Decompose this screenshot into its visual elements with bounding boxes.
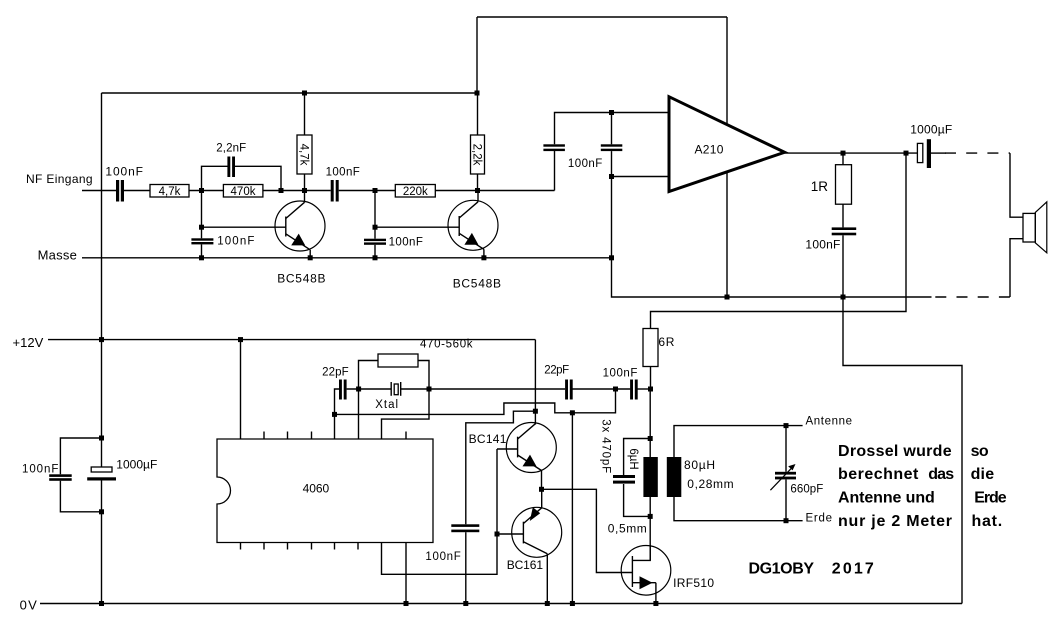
svg-text:22pF: 22pF (544, 365, 569, 377)
svg-text:hat.: hat. (972, 513, 1003, 530)
capacitor 100nF osc (630, 380, 633, 400)
wire: +12V rail y=339.6 (48, 339, 535, 341)
resistor 470k feedback (223, 185, 263, 198)
wire: osc line xtal right to 22pF2 (401, 388, 565, 390)
svg-text:100nF: 100nF (389, 236, 423, 248)
wire: 22pF2 to node 615.5 (572, 388, 630, 390)
svg-text:2,2k: 2,2k (471, 144, 483, 166)
node: xtal right (427, 387, 432, 392)
svg-text:BC548B: BC548B (453, 276, 501, 290)
node: psu bracket top (99, 436, 104, 441)
svg-text:Masse: Masse (38, 248, 77, 263)
node: 0V at 4060 pin drop (404, 601, 409, 606)
svg-text:660pF: 660pF (790, 484, 823, 496)
capacitor 22pF right (565, 380, 568, 400)
wire: top feedback loop horizontal y=17 (477, 16, 727, 18)
svg-text:1R: 1R (811, 179, 829, 194)
node: top rail at 2,2k (475, 91, 480, 96)
node: output at speaker branch (904, 151, 909, 156)
wire: main vertical x=650 from osc node to drain (649, 389, 651, 457)
node: filter top (648, 436, 653, 441)
wire: dashed to speaker (945, 152, 1010, 154)
wire: xtal right node down to 4060 pin x=381.5 (382, 389, 430, 439)
node: A210 + input (609, 110, 614, 115)
node: 0V at x=101.5 (99, 601, 104, 606)
node: Q2 collector / 2,2k (475, 188, 480, 193)
capacitor 100nF decoupling (451, 524, 479, 527)
svg-text:2,2nF: 2,2nF (216, 142, 246, 154)
svg-text:470-560k: 470-560k (420, 339, 473, 351)
op-amp A210 (669, 97, 785, 192)
node: emitter output junction (539, 487, 544, 492)
svg-text:BC161: BC161 (507, 558, 544, 572)
transistor Q1 BC548B (275, 201, 325, 251)
svg-text:6µH: 6µH (627, 448, 639, 469)
capacitor 22pF left (339, 380, 342, 400)
capacitor 100nF to A210 (left) (543, 144, 565, 146)
IC U1 4060 (217, 439, 433, 543)
svg-text:Xtal: Xtal (375, 399, 398, 411)
wire: base drive vertical x=497 (382, 449, 498, 574)
svg-text:Antenne: Antenne (806, 416, 853, 428)
resistor 4,7k series (150, 185, 189, 198)
wire: A210 - input (612, 176, 670, 178)
node: Q1 collector (302, 188, 307, 193)
svg-text:100nF: 100nF (805, 238, 840, 252)
svg-text:0V: 0V (20, 598, 38, 613)
svg-text:berechnet: berechnet (838, 466, 919, 483)
capacitor 1000uF output electrolytic (917, 143, 922, 162)
svg-text:die: die (971, 466, 995, 483)
node B (Q2 base node) (373, 188, 378, 193)
resistor 220k feedback (395, 185, 435, 198)
node: +12V at x=101.5 (99, 337, 104, 342)
wire: 0V rail y=603.5 (40, 603, 962, 605)
svg-text:100nF: 100nF (425, 551, 460, 563)
capacitor 660pF variable (785, 426, 787, 472)
transformer secondary 80uH (667, 457, 682, 497)
svg-text:4,7k: 4,7k (298, 144, 310, 166)
wire: 100nF psu bracket (60, 438, 101, 474)
wire: speaker bottom return (1010, 239, 1023, 297)
resistor 4,7k collector load (vertical) (304, 93, 306, 135)
svg-text:6R: 6R (658, 335, 674, 349)
capacitor 2,2nF loop wires (202, 166, 228, 190)
svg-text:100nF: 100nF (568, 158, 602, 170)
node: 6R bottom on osc line (648, 387, 653, 392)
transistor Q2 BC548B (448, 200, 498, 250)
wire: 4060 Vdd pin to +12V (240, 340, 242, 439)
node A (Q1 base node) (199, 188, 204, 193)
node: Q2 emitter at Masse (481, 255, 486, 260)
wire: secondary bottom to Erde (674, 497, 803, 521)
svg-text:0,5mm: 0,5mm (608, 522, 647, 536)
wire: feedback vertical x=727 down through A210 to node at y=297 (726, 17, 728, 297)
node: filter bottom (648, 514, 653, 519)
wire: 470k to interstage cap, nodes at 281 and 304.5 (263, 190, 331, 192)
node: output at 1R (841, 151, 846, 156)
svg-text:4,7k: 4,7k (159, 186, 181, 198)
svg-text:1000µF: 1000µF (910, 122, 952, 136)
svg-text:Erde: Erde (974, 490, 1007, 507)
transistor Q5 IRF510 (621, 546, 671, 596)
svg-text:Erde: Erde (806, 513, 833, 525)
svg-text:Drossel wurde: Drossel wurde (838, 443, 952, 460)
node: +12V at 4060 supply (238, 337, 243, 342)
resistor 1R (842, 153, 844, 165)
resistor 470-560k (359, 361, 379, 390)
capacitor 100nF Q1 base to Masse (191, 238, 213, 240)
wire: vertical x=611.5 down to return line (612, 177, 932, 298)
capacitor 100nF zobel (832, 227, 857, 230)
node: psu bracket bottom (99, 509, 104, 514)
wire: osc staircase to node 615.5 (335, 389, 616, 414)
svg-text:100nF: 100nF (105, 164, 143, 178)
transistor Q3 BC141 (506, 423, 556, 473)
wire: top feedback loop vertical left x=477 (476, 17, 478, 93)
resistor 6R (643, 329, 658, 367)
wire: top supply rail y=93 (102, 92, 478, 94)
svg-text:nur je 2 Meter: nur je 2 Meter (838, 513, 952, 530)
wire: 220k to Q2 collector node to A210 cap riser (435, 190, 554, 192)
node: BC161 base tap (495, 532, 500, 537)
capacitor 1000uF smoothing electrolytic (91, 467, 112, 472)
pin ticks bottom unconnected (240, 543, 242, 550)
capacitor 3x470pF bracket (624, 439, 651, 476)
svg-text:0,28mm: 0,28mm (687, 477, 733, 491)
node: Masse at 375 (373, 255, 378, 260)
wire: emitter output to IRF510 gate (542, 489, 633, 572)
node: A210 - input (609, 174, 614, 179)
svg-text:A210: A210 (695, 142, 724, 156)
wire: decoupling staircase to 100nF (466, 411, 536, 524)
node: Q2 base tap (373, 225, 378, 230)
svg-text:100nF: 100nF (217, 235, 254, 247)
wire: Q2 base horizontal (375, 226, 459, 228)
svg-text:3x 470pF: 3x 470pF (600, 419, 612, 473)
node: decoupling at 0V (463, 601, 468, 606)
node: osc node at 334.5 (332, 412, 337, 417)
wire: riser to A210 coupling cap (554, 151, 556, 191)
wire: output to 6R loop (651, 153, 907, 328)
svg-text:NF Eingang: NF Eingang (26, 172, 93, 186)
wire: 4,7k to 470k with node A (189, 190, 223, 192)
capacitor 100nF shunt at A210 input (611, 113, 613, 145)
wire: Q1 base node vertical (201, 191, 203, 239)
svg-text:100nF: 100nF (326, 167, 360, 179)
wire: Masse rail y=257.8 (82, 257, 612, 259)
svg-text:100nF: 100nF (603, 367, 638, 379)
wire: speaker top feed (1010, 153, 1023, 217)
svg-text:IRF510: IRF510 (673, 576, 714, 590)
svg-text:220k: 220k (403, 186, 428, 198)
node: Masse at 201.5 (199, 255, 204, 260)
wire: interstage cap to 220k, node at 375 (339, 190, 396, 192)
node: IRF510 source at 0V (653, 601, 658, 606)
node: collector decoupling tap (533, 409, 538, 414)
transistor Q4 BC161 (512, 507, 562, 557)
wire: left supply vertical x=101.5 (top rail down to 1000uF) (101, 93, 103, 467)
node: return at x=843 (841, 295, 846, 300)
node: Q1 emitter at Masse (308, 255, 313, 260)
svg-text:+12V: +12V (13, 335, 44, 350)
wire: x=843 down to lower right frame (843, 297, 962, 604)
svg-text:DG1OBY: DG1OBY (749, 561, 815, 578)
node: 2,2nF right leg (279, 188, 284, 193)
wire: A210 output y=153.1 (785, 152, 918, 154)
node: return at x=727 (725, 295, 730, 300)
wire: 4060 pin x=334.5 up to osc node (334, 414, 336, 439)
wire: cap to 4,7k (124, 190, 150, 192)
svg-text:so: so (971, 443, 989, 460)
node: erde at 660pF (784, 518, 789, 523)
capacitor 2,2nF (227, 157, 230, 178)
svg-text:22pF: 22pF (322, 367, 349, 379)
resistor 2,2k collector load (vertical) (477, 93, 479, 135)
capacitor 100nF psu (49, 474, 71, 477)
capacitor 100nF input coupling (116, 180, 119, 202)
node: Q1 base tap (199, 225, 204, 230)
svg-text:Antenne und: Antenne und (838, 490, 935, 507)
node: Masse end at x=611.5 (609, 255, 614, 260)
wire: ground drop x=572.4 (571, 413, 573, 604)
svg-text:1000µF: 1000µF (116, 458, 157, 472)
node: xtal left (356, 387, 361, 392)
wire: NF Eingang signal line y=190.5 (82, 190, 116, 192)
svg-text:80µH: 80µH (684, 458, 715, 472)
node: BC161 collector at 0V (545, 601, 550, 606)
wire: 100nF to 6R node (637, 388, 650, 390)
crystal Xtal (390, 382, 392, 396)
speaker (1023, 213, 1035, 242)
wire: Q1 base horizontal (202, 226, 286, 228)
wire: 4060 pin x=358 to xtal left node (358, 389, 360, 439)
wire: secondary top to Antenne (674, 426, 803, 457)
pin ticks top unconnected (263, 432, 265, 440)
svg-text:100nF: 100nF (22, 464, 58, 476)
capacitor 100nF Q2 base to Masse (364, 239, 386, 241)
wire: 22pF left cap leg (335, 389, 340, 414)
node: top rail at 4,7k (302, 91, 307, 96)
wire: dashed return to speaker (935, 296, 1010, 298)
svg-text:BC548B: BC548B (277, 271, 325, 285)
wire: Q2 base node vertical (374, 191, 376, 239)
capacitor 100nF interstage (331, 180, 334, 202)
svg-text:4060: 4060 (303, 482, 330, 496)
node: antenna at 660pF (784, 423, 789, 428)
wire: 4060 bottom pin to 0V (405, 543, 407, 604)
wire: cap top to A210 + input (555, 113, 670, 145)
node: staircase at ground drop (570, 410, 575, 415)
wire: BC161 base (497, 533, 523, 535)
wire: 22pF to xtal left node (347, 388, 392, 390)
wire: BC141 collector from +12V rail (534, 340, 536, 425)
svg-text:BC141: BC141 (469, 432, 507, 446)
wire: left supply vertical x=101.5 (below 1000uF to 0V rail) (101, 481, 103, 604)
inductor 6uH primary (0,5mm) (643, 457, 657, 497)
svg-text:das: das (928, 466, 954, 483)
node: between 22pF2 and 100nF (613, 387, 618, 392)
node: ground drop at 0V (570, 601, 575, 606)
wire: BC141 base (497, 448, 518, 450)
svg-text:470k: 470k (231, 186, 256, 198)
